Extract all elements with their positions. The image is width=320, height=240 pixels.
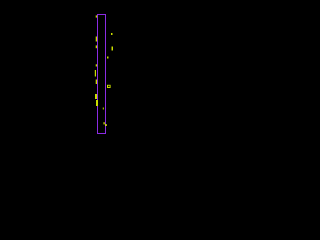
yellow tick R2 <box>112 47 114 51</box>
yellow tick L1 <box>96 15 97 17</box>
yellow tick B3 <box>105 124 107 126</box>
yellow tick L2 <box>96 37 97 42</box>
yellow block L7 <box>95 94 97 99</box>
yellow tick R3 <box>107 57 109 59</box>
yellow tick B2 <box>104 122 105 124</box>
yellow tick L4 <box>96 64 97 66</box>
yellow tick L5 <box>95 70 96 77</box>
yellow box outline <box>107 85 111 88</box>
yellow tick L3 <box>96 45 97 48</box>
yellow block L8 <box>96 100 98 106</box>
yellow tick B1 <box>103 108 104 110</box>
yellow tick R1 <box>111 33 113 35</box>
yellow box dark center <box>108 86 110 87</box>
purple outlined tall rectangle <box>98 15 106 134</box>
yellow tick L6 <box>96 80 97 85</box>
